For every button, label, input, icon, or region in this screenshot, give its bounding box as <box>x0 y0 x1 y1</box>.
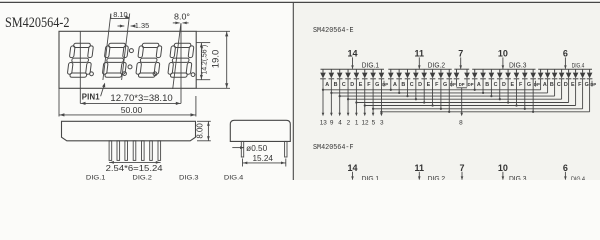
LED DIG.2 segment G <box>438 69 444 86</box>
wire segment F to pin 12 <box>364 87 366 114</box>
svg-text:DP: DP <box>459 82 465 87</box>
rail segment DP <box>381 111 589 113</box>
svg-text:1.35: 1.35 <box>135 21 149 30</box>
extension line through digit 1 <box>79 31 81 103</box>
svg-text:DP: DP <box>534 82 540 87</box>
LED DIG.4 segment E <box>566 69 572 86</box>
svg-text:8.00: 8.00 <box>196 122 205 138</box>
top border <box>0 1 600 3</box>
rail segment D <box>348 98 562 100</box>
LED DIG.4 segment B <box>545 69 551 86</box>
svg-text:B: B <box>334 82 338 88</box>
svg-text:E: E <box>571 82 575 88</box>
schematic E DIG.1 anode bus <box>321 68 385 70</box>
svg-text:14: 14 <box>347 163 357 173</box>
slanted reference line <box>173 23 181 89</box>
LED DIG.1 segment G <box>370 69 376 86</box>
svg-text:50.00: 50.00 <box>121 105 143 115</box>
svg-text:DIG.3: DIG.3 <box>179 175 199 180</box>
svg-text:DP: DP <box>450 82 456 87</box>
svg-text:12: 12 <box>361 120 369 127</box>
wire segment D to pin 2 <box>347 87 349 114</box>
rail segment A <box>323 89 541 91</box>
LED DIG.4 segment C <box>552 69 558 86</box>
LED DIG.3 segment F <box>514 69 520 86</box>
LED DIG.3 segment B <box>480 69 486 86</box>
schematic E DIG.2 anode bus <box>388 68 451 70</box>
svg-text:A: A <box>325 82 329 88</box>
svg-text:D: D <box>418 82 422 88</box>
svg-text:DP: DP <box>468 82 474 87</box>
LED DIG.4 segment DP <box>587 69 593 86</box>
LED DIG.2 segment A <box>388 69 394 86</box>
svg-text:14.2(.56"): 14.2(.56") <box>201 45 208 75</box>
svg-text:G: G <box>527 82 531 88</box>
svg-text:8.0°: 8.0° <box>174 12 190 21</box>
svg-text:D: D <box>350 82 354 88</box>
svg-text:DIG.1: DIG.1 <box>362 176 380 180</box>
svg-text:14: 14 <box>347 49 357 59</box>
rail segment F <box>365 105 576 107</box>
LED DIG.2 segment D <box>413 69 419 86</box>
LED DIG.2 segment F <box>430 69 436 86</box>
svg-text:G: G <box>443 82 447 88</box>
svg-text:6: 6 <box>563 49 568 59</box>
svg-text:DP: DP <box>382 82 388 87</box>
svg-text:10: 10 <box>498 163 508 173</box>
dimension 2.54*6=15.24 <box>109 161 161 163</box>
dimension 14.2(.56&#34;) digit height <box>197 42 211 44</box>
svg-text:PIN1: PIN1 <box>82 92 101 101</box>
LED DIG.3 segment G <box>522 69 528 86</box>
svg-text:7: 7 <box>459 163 464 173</box>
DIG.4 wires <box>540 87 542 90</box>
DIG.2 wires <box>390 87 392 90</box>
svg-text:DIG.2: DIG.2 <box>132 175 152 180</box>
svg-text:D: D <box>564 82 568 88</box>
DIG.3 wires <box>474 87 476 90</box>
svg-text:12.70*3=38.10: 12.70*3=38.10 <box>110 93 172 103</box>
LED DIG.1 segment E <box>354 69 360 86</box>
LED DIG.4 segment A <box>538 69 544 86</box>
LED DIG.3 segment A <box>472 69 478 86</box>
LED DIG.3 segment D <box>497 69 503 86</box>
svg-text:2: 2 <box>347 120 351 127</box>
wire segment DP to pin 3 <box>380 87 382 114</box>
svg-text:DIG.3: DIG.3 <box>509 63 527 70</box>
svg-text:2.54*6=15.24: 2.54*6=15.24 <box>106 163 163 173</box>
LED DIG.1 segment A <box>320 69 326 86</box>
colon cathode join <box>457 87 468 89</box>
rail segment B <box>331 92 547 94</box>
rail segment E <box>356 102 568 104</box>
schematic E DIG.4 anode bus <box>538 68 592 70</box>
LED DIG.3 segment E <box>505 69 511 86</box>
digit 1 seven-segment <box>67 43 94 77</box>
svg-text:11: 11 <box>415 49 425 59</box>
rail segment G <box>373 108 582 110</box>
svg-text:DP: DP <box>590 82 596 87</box>
vertical reference line <box>180 23 182 103</box>
LED DIG.4 segment G <box>580 69 586 86</box>
svg-text:DIG.2: DIG.2 <box>428 176 446 180</box>
svg-text:1: 1 <box>355 120 359 127</box>
DIG.3 letter row end tick <box>535 81 537 87</box>
svg-text:11: 11 <box>415 163 425 173</box>
svg-text:C: C <box>342 82 346 88</box>
svg-text:DIG.1: DIG.1 <box>86 175 106 180</box>
LED colon upper <box>454 69 460 86</box>
svg-text:15.24: 15.24 <box>253 154 274 163</box>
LED DIG.1 segment F <box>362 69 368 86</box>
LED DIG.4 segment D <box>559 69 565 86</box>
svg-text:C: C <box>410 82 414 88</box>
LED DIG.3 segment C <box>489 69 495 86</box>
display front view outline <box>59 31 196 88</box>
svg-text:DIG.4: DIG.4 <box>571 177 586 180</box>
colon dots <box>129 49 133 53</box>
svg-text:DIG.4: DIG.4 <box>224 175 244 180</box>
svg-text:SM420564-E: SM420564-E <box>313 27 354 35</box>
LED colon lower <box>464 69 470 86</box>
DIG.4 letter row end tick <box>591 81 593 87</box>
svg-text:13: 13 <box>320 120 328 127</box>
digit 4 seven-segment <box>167 43 194 77</box>
dimension 1.35 <box>118 25 125 27</box>
rail segment C <box>340 95 555 97</box>
LED DIG.3 segment DP <box>530 69 536 86</box>
schematic E DIG.3 anode bus <box>472 68 535 70</box>
dimension 19.0 package height <box>197 30 231 32</box>
dimension 8.00 side height <box>197 120 211 122</box>
side view pins <box>109 141 112 161</box>
svg-text:A: A <box>393 82 397 88</box>
svg-text:A: A <box>543 82 547 88</box>
svg-text:5: 5 <box>372 120 376 127</box>
end view pins <box>241 141 243 157</box>
svg-text:D: D <box>502 82 506 88</box>
svg-text:8: 8 <box>459 120 463 127</box>
wire segment A to pin 13 <box>322 87 324 114</box>
svg-text:7: 7 <box>458 49 463 59</box>
svg-text:B: B <box>485 82 489 88</box>
svg-text:10: 10 <box>498 49 508 59</box>
end view package outline <box>230 120 290 141</box>
wire segment C to pin 4 <box>339 87 341 114</box>
side view package outline <box>62 121 196 141</box>
DIG.2 letter row end tick <box>451 81 453 87</box>
svg-text:DIG.1: DIG.1 <box>362 63 380 70</box>
LED DIG.1 segment D <box>345 69 351 86</box>
svg-text:G: G <box>375 82 379 88</box>
svg-text:B: B <box>401 82 405 88</box>
svg-text:DIG.3: DIG.3 <box>509 176 527 180</box>
digit 3 seven-segment <box>135 43 162 77</box>
svg-text:SM420564-2: SM420564-2 <box>5 15 70 31</box>
svg-text:C: C <box>557 82 561 88</box>
slanted extension lines <box>103 14 111 80</box>
svg-text:9: 9 <box>330 120 334 127</box>
svg-text:B: B <box>550 82 554 88</box>
svg-text:G: G <box>585 82 589 88</box>
svg-text:19.0: 19.0 <box>209 50 220 69</box>
colon anode bus <box>454 68 469 70</box>
svg-text:6: 6 <box>563 163 568 173</box>
dimension 0.50 pin dia <box>232 147 243 149</box>
LED DIG.1 segment B <box>329 69 335 86</box>
decimal points <box>90 72 94 76</box>
panel divider <box>292 2 294 180</box>
right panel background tint <box>294 3 600 180</box>
svg-text:E: E <box>359 82 363 88</box>
LED DIG.2 segment DP <box>446 69 452 86</box>
svg-text:C: C <box>494 82 498 88</box>
LED DIG.4 segment F <box>573 69 579 86</box>
svg-text:SM420564-F: SM420564-F <box>313 144 354 152</box>
svg-text:ø0.50: ø0.50 <box>246 144 268 153</box>
DIG.1 letter row end tick <box>383 81 385 87</box>
LED DIG.2 segment C <box>405 69 411 86</box>
svg-text:DIG.2: DIG.2 <box>428 63 446 70</box>
svg-text:E: E <box>427 82 431 88</box>
svg-text:E: E <box>510 82 514 88</box>
LED DIG.1 segment DP <box>379 69 385 86</box>
svg-text:3: 3 <box>380 120 384 127</box>
svg-text:4: 4 <box>338 120 342 127</box>
digit 2 seven-segment <box>102 43 129 77</box>
wire segment G to pin 5 <box>372 87 374 114</box>
LED DIG.1 segment C <box>337 69 343 86</box>
LED DIG.2 segment B <box>396 69 402 86</box>
svg-text:A: A <box>477 82 481 88</box>
LED DIG.2 segment E <box>421 69 427 86</box>
wire segment B to pin 9 <box>330 87 332 114</box>
wire segment E to pin 1 <box>355 87 357 114</box>
